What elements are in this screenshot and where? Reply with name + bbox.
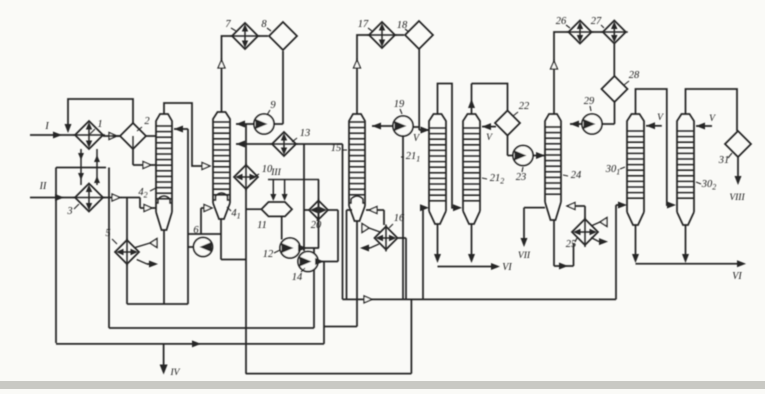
- svg-text:9: 9: [270, 100, 276, 111]
- svg-text:10: 10: [262, 164, 273, 175]
- svg-text:7: 7: [225, 19, 231, 30]
- svg-text:15: 15: [331, 143, 342, 154]
- svg-text:16: 16: [394, 213, 405, 224]
- svg-text:26: 26: [556, 16, 567, 27]
- svg-text:17: 17: [358, 19, 369, 30]
- svg-text:I: I: [44, 121, 49, 132]
- svg-text:28: 28: [629, 70, 640, 81]
- svg-text:IV: IV: [170, 368, 181, 378]
- svg-text:23: 23: [516, 172, 527, 183]
- svg-text:27: 27: [591, 16, 602, 27]
- svg-text:II: II: [39, 181, 47, 192]
- svg-text:31: 31: [718, 155, 730, 166]
- svg-text:29: 29: [584, 96, 595, 107]
- svg-text:VI: VI: [502, 262, 512, 273]
- svg-text:12: 12: [263, 249, 274, 260]
- svg-text:24: 24: [571, 170, 582, 181]
- svg-text:VI: VI: [732, 271, 742, 282]
- svg-text:19: 19: [394, 99, 405, 110]
- svg-text:2: 2: [144, 116, 150, 127]
- svg-text:22: 22: [519, 101, 530, 112]
- svg-text:25: 25: [566, 239, 577, 250]
- svg-text:14: 14: [292, 272, 303, 283]
- svg-text:1: 1: [97, 119, 102, 130]
- svg-text:8: 8: [261, 19, 267, 30]
- svg-text:VIII: VIII: [729, 193, 745, 203]
- svg-text:3: 3: [66, 206, 72, 217]
- svg-text:13: 13: [300, 128, 311, 139]
- svg-text:11: 11: [257, 220, 267, 231]
- svg-text:VII: VII: [518, 251, 531, 261]
- svg-text:5: 5: [105, 228, 110, 239]
- svg-text:6: 6: [193, 225, 199, 236]
- svg-text:20: 20: [311, 220, 322, 231]
